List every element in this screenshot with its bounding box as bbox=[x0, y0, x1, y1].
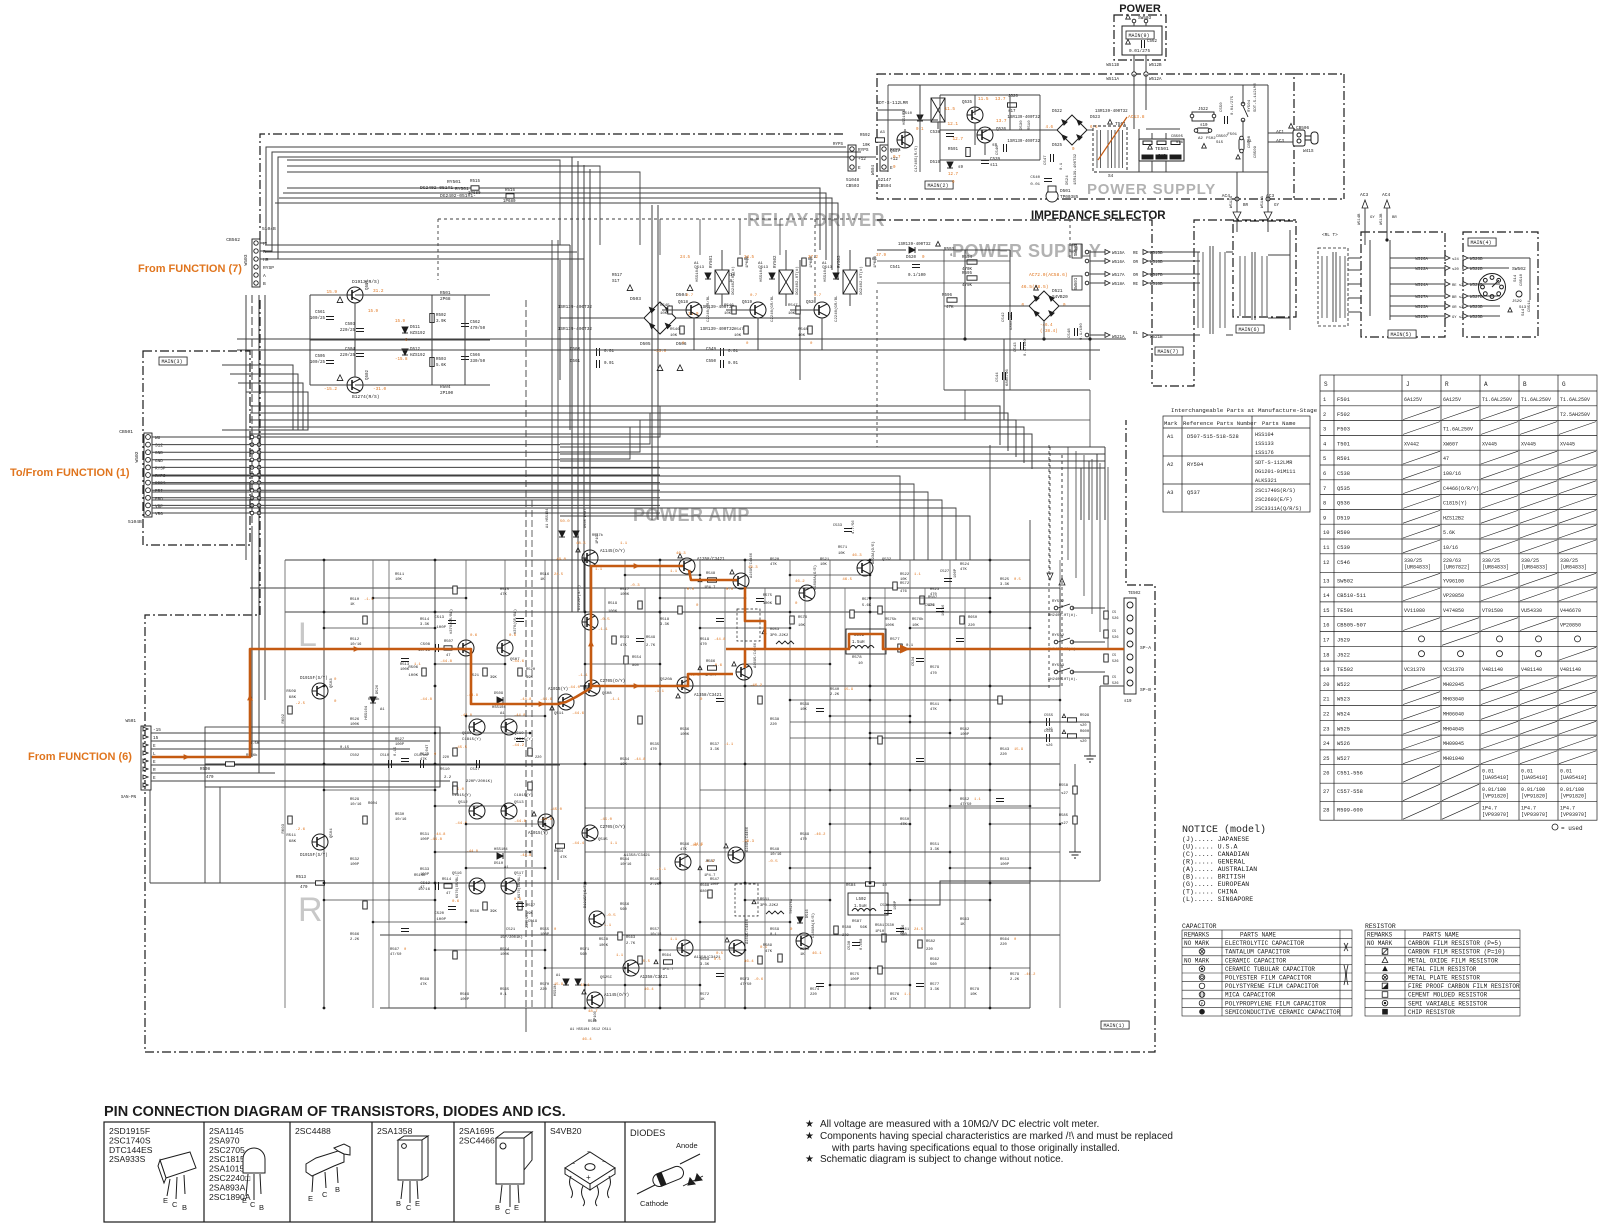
wire rail 722 bbox=[790, 721, 1030, 723]
relay contact RY502 a bbox=[1054, 640, 1058, 644]
connector pin W527B bbox=[1463, 294, 1468, 299]
wire Q536 down bbox=[984, 143, 986, 155]
svg-text:R545: R545 bbox=[650, 878, 660, 882]
svg-text:DH2402-0T(#)-: DH2402-0T(#)- bbox=[1048, 613, 1078, 618]
wire CB501 pin PRPS bbox=[152, 482, 660, 484]
svg-text:47K: 47K bbox=[560, 856, 568, 860]
svg-text:0.01: 0.01 bbox=[604, 362, 615, 366]
svg-text:RY502: RY502 bbox=[774, 255, 778, 268]
wire amp column bbox=[544, 560, 546, 1008]
warning mark bbox=[1108, 119, 1113, 124]
wire CB501 pin RYSP bbox=[152, 466, 660, 468]
svg-text:R537: R537 bbox=[526, 904, 535, 908]
svg-text:R563: R563 bbox=[626, 936, 636, 940]
capacitor C538 bbox=[946, 134, 954, 137]
wire interconnect bbox=[830, 789, 950, 791]
capacitor C504 bbox=[356, 354, 364, 357]
svg-text:MH04045: MH04045 bbox=[1443, 726, 1464, 732]
svg-text:CB503: CB503 bbox=[846, 184, 860, 189]
svg-text:51048: 51048 bbox=[846, 178, 860, 183]
wire W517A bbox=[1090, 273, 1105, 275]
svg-text:Q513: Q513 bbox=[514, 801, 524, 805]
wire rail 935b bbox=[660, 934, 1030, 936]
transistor Q520A bbox=[677, 677, 693, 693]
svg-text:V474850: V474850 bbox=[1443, 608, 1464, 614]
svg-text:1K: 1K bbox=[350, 603, 355, 607]
pass-through bbox=[250, 488, 254, 492]
svg-text:R: R bbox=[1445, 381, 1449, 388]
svg-text:C551-556: C551-556 bbox=[1337, 771, 1363, 777]
svg-text:15.9: 15.9 bbox=[1014, 748, 1024, 752]
MAIN(3) dash-dot box bbox=[143, 351, 250, 545]
svg-text:10K: 10K bbox=[838, 552, 846, 556]
svg-text:470: 470 bbox=[300, 886, 308, 890]
warning mark bbox=[676, 694, 680, 698]
connector pin W525A bbox=[1445, 314, 1450, 319]
svg-text:S: S bbox=[1324, 381, 1328, 388]
wire mid rail lower bbox=[560, 500, 942, 560]
svg-text:100P: 100P bbox=[540, 933, 550, 937]
svg-text:MAIN(2): MAIN(2) bbox=[928, 183, 949, 189]
svg-text:C1815(Y): C1815(Y) bbox=[1443, 501, 1467, 507]
wire amp rail3 bbox=[285, 611, 1060, 613]
wire amp column bbox=[388, 560, 390, 1008]
pass-through bbox=[257, 504, 261, 508]
relay lever bbox=[1058, 668, 1070, 672]
svg-text:R544: R544 bbox=[620, 858, 630, 862]
svg-text:W502: W502 bbox=[134, 451, 140, 462]
svg-text:★: ★ bbox=[805, 1119, 814, 1130]
svg-text:AC72.0(AC58.6): AC72.0(AC58.6) bbox=[1029, 272, 1068, 278]
svg-text:REMARKS: REMARKS bbox=[1367, 932, 1393, 939]
svg-text:#370(GR/BL): #370(GR/BL) bbox=[449, 609, 454, 634]
svg-text:HSS104: HSS104 bbox=[1255, 432, 1274, 438]
wire CB501 pin S12 bbox=[152, 444, 560, 446]
svg-text:D521: D521 bbox=[1052, 289, 1063, 294]
wire AC3 up bbox=[1364, 208, 1366, 232]
svg-text:C520: C520 bbox=[434, 912, 444, 916]
svg-text:0.15: 0.15 bbox=[340, 746, 350, 750]
svg-text:W527: W527 bbox=[1337, 756, 1350, 762]
wire lower rail bbox=[560, 467, 1105, 469]
junction bbox=[989, 899, 992, 902]
svg-text:W516B: W516B bbox=[1150, 261, 1163, 265]
svg-text:0.01: 0.01 bbox=[1521, 769, 1533, 775]
junction bbox=[465, 921, 468, 924]
wire relay drop bbox=[739, 219, 741, 255]
warning mark bbox=[550, 706, 554, 710]
connector pin W516B bbox=[1143, 259, 1148, 264]
svg-text:220: 220 bbox=[1000, 943, 1008, 947]
wire mid rail lower bbox=[560, 492, 928, 560]
svg-text:15.9: 15.9 bbox=[368, 310, 379, 314]
svg-text:MH03040: MH03040 bbox=[1443, 697, 1464, 703]
connector pin W516A bbox=[1105, 259, 1110, 264]
svg-text:R559: R559 bbox=[770, 928, 780, 932]
svg-text:C538: C538 bbox=[848, 940, 852, 950]
svg-text:2SC1740S(R/S): 2SC1740S(R/S) bbox=[1255, 488, 1295, 494]
connector pin W521B bbox=[1143, 333, 1148, 338]
svg-text:46.2: 46.2 bbox=[795, 580, 805, 584]
junction bbox=[869, 699, 872, 702]
wire relay bus bbox=[287, 188, 820, 250]
junction bbox=[869, 574, 872, 577]
junction bbox=[323, 899, 326, 902]
resistor R523 bbox=[612, 636, 616, 644]
rail junction bbox=[434, 559, 437, 562]
wire amp mid rail bbox=[580, 685, 1060, 687]
svg-text:A1 HSS104: A1 HSS104 bbox=[546, 509, 550, 528]
svg-text:R554: R554 bbox=[500, 948, 510, 952]
svg-text:21: 21 bbox=[1323, 697, 1329, 703]
svg-text:R575: R575 bbox=[763, 594, 773, 598]
diode D511 bbox=[402, 327, 408, 333]
svg-text:1P4.7: 1P4.7 bbox=[1521, 806, 1536, 812]
svg-text:R532: R532 bbox=[350, 858, 360, 862]
RL core line bbox=[1332, 252, 1334, 322]
svg-text:A2: A2 bbox=[1198, 137, 1203, 141]
svg-text:B: B bbox=[259, 1203, 264, 1212]
resistor R568b bbox=[708, 890, 712, 898]
capacitor stub bbox=[401, 929, 409, 932]
resistor R573 bbox=[850, 610, 854, 618]
svg-text:C562: C562 bbox=[1147, 40, 1158, 44]
svg-text:1SR139-400T32: 1SR139-400T32 bbox=[1074, 153, 1078, 185]
wire W526A bbox=[1390, 257, 1445, 259]
svg-text:R516: R516 bbox=[540, 573, 550, 577]
svg-text:1.5uH: 1.5uH bbox=[852, 641, 865, 645]
svg-text:R565: R565 bbox=[500, 988, 510, 992]
svg-text:-44.6: -44.6 bbox=[540, 698, 553, 702]
relay SDT-S-112LMR bbox=[931, 98, 945, 122]
svg-text:ELECTROLYTIC CAPACITOR: ELECTROLYTIC CAPACITOR bbox=[1225, 940, 1305, 947]
svg-text:1.1: 1.1 bbox=[616, 954, 624, 958]
svg-text:220: 220 bbox=[535, 756, 541, 760]
svg-text:46.4: 46.4 bbox=[744, 960, 754, 964]
svg-text:1K: 1K bbox=[800, 953, 805, 957]
wire amp column minor bbox=[884, 588, 886, 1008]
svg-text:3.3K: 3.3K bbox=[1000, 583, 1010, 587]
capacitor stub bbox=[401, 659, 409, 662]
wire amp column minor bbox=[604, 588, 606, 1008]
svg-text:47K: 47K bbox=[930, 708, 938, 712]
svg-text:R511: R511 bbox=[395, 573, 405, 577]
wire PS right rail bbox=[1267, 85, 1269, 172]
svg-text:C1815(Y): C1815(Y) bbox=[514, 793, 533, 798]
junction bbox=[659, 984, 662, 987]
svg-text:Q508: Q508 bbox=[602, 692, 612, 696]
svg-text:SW503: SW503 bbox=[1138, 16, 1152, 21]
bridge D522/D523 bbox=[1057, 115, 1087, 145]
legend O = used bbox=[1552, 824, 1558, 830]
svg-text:Reference Parts Number: Reference Parts Number bbox=[1183, 420, 1257, 427]
svg-text:R577: R577 bbox=[930, 983, 939, 987]
junction bbox=[465, 867, 468, 870]
resistor R503 bbox=[430, 358, 434, 367]
svg-text:100P: 100P bbox=[436, 918, 446, 922]
wire R520 col bbox=[1009, 95, 1011, 130]
resistor emitter bbox=[744, 326, 748, 334]
capacitor C562 bbox=[461, 324, 469, 327]
MAIN6 core line bbox=[1251, 252, 1253, 320]
svg-text:[VP93970]: [VP93970] bbox=[1521, 812, 1548, 818]
svg-text:R571: R571 bbox=[580, 948, 590, 952]
wire relay top bbox=[919, 85, 921, 100]
pass-through bbox=[250, 435, 254, 439]
svg-text:0.1: 0.1 bbox=[500, 993, 508, 997]
svg-text:CEMENT MOLDED RESISTOR: CEMENT MOLDED RESISTOR bbox=[1408, 992, 1488, 999]
diode D512 bbox=[402, 349, 408, 355]
resistor R506 bbox=[422, 668, 426, 676]
rail junction bbox=[584, 611, 587, 614]
svg-text:AC4: AC4 bbox=[1222, 193, 1231, 199]
svg-text:B: B bbox=[1523, 381, 1527, 388]
svg-text:220: 220 bbox=[443, 756, 449, 760]
svg-text:R567: R567 bbox=[390, 948, 399, 952]
svg-text:R558: R558 bbox=[1059, 784, 1069, 788]
connector CB504 bbox=[880, 145, 888, 171]
vertical feed bus bbox=[583, 165, 585, 612]
capacitor C538b bbox=[852, 943, 860, 946]
svg-text:R514: R514 bbox=[420, 618, 430, 622]
parts table bbox=[1320, 375, 1597, 820]
svg-text:R534: R534 bbox=[554, 850, 564, 854]
svg-text:10K: 10K bbox=[820, 563, 828, 567]
svg-text:s27: s27 bbox=[1061, 792, 1068, 796]
resistor R557 bbox=[708, 866, 717, 870]
wire W518B bbox=[1148, 282, 1196, 284]
wire relay drop bbox=[779, 219, 781, 255]
svg-text:TE502: TE502 bbox=[1337, 667, 1353, 673]
svg-text:0.1: 0.1 bbox=[770, 933, 778, 937]
junction below bridge bbox=[1042, 337, 1045, 340]
svg-text:100/25: 100/25 bbox=[310, 360, 326, 365]
svg-text:2.2K: 2.2K bbox=[650, 883, 660, 887]
svg-text:6: 6 bbox=[1323, 471, 1326, 477]
svg-text:R546: R546 bbox=[724, 304, 734, 308]
PS border extension top bbox=[1294, 73, 1344, 75]
svg-text:Anode: Anode bbox=[676, 1141, 698, 1150]
wire base bbox=[790, 309, 814, 311]
svg-text:1.5K: 1.5K bbox=[250, 742, 260, 746]
svg-text:R519: R519 bbox=[700, 638, 710, 642]
svg-text:D524: D524 bbox=[1066, 175, 1070, 185]
svg-text:8: 8 bbox=[1323, 501, 1326, 507]
svg-text:5.6K: 5.6K bbox=[862, 604, 872, 608]
resistor R575 bbox=[776, 596, 780, 604]
svg-text:OR: OR bbox=[1133, 274, 1139, 278]
junction bbox=[434, 732, 437, 735]
connector pin W526A bbox=[1445, 256, 1450, 261]
bridge D521 S4VB20 bbox=[1029, 291, 1059, 321]
svg-text:R514: R514 bbox=[442, 878, 452, 882]
svg-text:Q535: Q535 bbox=[962, 101, 973, 105]
rail junction bbox=[744, 559, 747, 562]
transistor Q502 bbox=[347, 377, 363, 393]
svg-text:1P100: 1P100 bbox=[594, 1011, 598, 1022]
svg-text:[UA95410]: [UA95410] bbox=[1560, 775, 1587, 781]
diode D519 bbox=[947, 162, 953, 168]
svg-text:R557: R557 bbox=[706, 860, 715, 864]
wire interconnect bbox=[870, 732, 950, 734]
svg-text:D519: D519 bbox=[930, 161, 941, 165]
wire mid rail relay block bbox=[310, 339, 490, 341]
junction bbox=[829, 789, 832, 792]
svg-text:A1: A1 bbox=[380, 708, 385, 712]
SW501 box bbox=[1072, 244, 1082, 258]
svg-text:-2.6: -2.6 bbox=[295, 828, 305, 832]
wire into MAIN5 bbox=[1364, 232, 1366, 245]
svg-text:5.6K: 5.6K bbox=[436, 364, 447, 368]
AC3 junction bbox=[1266, 197, 1270, 201]
svg-text:680E/96: 680E/96 bbox=[1005, 369, 1010, 386]
svg-text:POLYPROPYLENE FILM CAPACITOR: POLYPROPYLENE FILM CAPACITOR bbox=[1225, 1000, 1326, 1007]
svg-text:-46.3: -46.3 bbox=[742, 840, 755, 844]
warning mark bbox=[678, 554, 682, 558]
svg-text:R545: R545 bbox=[660, 304, 670, 308]
rail junction bbox=[434, 763, 437, 766]
svg-text:R527: R527 bbox=[395, 738, 404, 742]
svg-text:47K: 47K bbox=[900, 823, 908, 827]
svg-text:330/25: 330/25 bbox=[1521, 558, 1539, 564]
pass-through bbox=[250, 450, 254, 454]
RY504 contact2 bbox=[1241, 118, 1245, 122]
AC3 arrow bbox=[1264, 212, 1272, 220]
resistor stub bbox=[758, 956, 762, 964]
transistor Q505 bbox=[458, 640, 474, 656]
junction bbox=[434, 789, 437, 792]
svg-text:0.15: 0.15 bbox=[394, 746, 398, 756]
svg-text:R571: R571 bbox=[838, 546, 848, 550]
svg-text:1K: 1K bbox=[540, 578, 545, 582]
wire R out up bbox=[1099, 686, 1101, 881]
junction bbox=[789, 574, 792, 577]
rail junction bbox=[584, 1007, 587, 1010]
svg-text:R537: R537 bbox=[710, 743, 719, 747]
svg-text:RY503: RY503 bbox=[838, 255, 842, 268]
transistor Q504 bbox=[312, 834, 328, 850]
svg-text:R511: R511 bbox=[286, 834, 296, 838]
resistor R572 bbox=[893, 582, 897, 590]
svg-text:C530: C530 bbox=[885, 924, 895, 928]
svg-text:RY503: RY503 bbox=[1052, 664, 1065, 668]
svg-text:A893A(O/E): A893A(O/E) bbox=[871, 541, 876, 564]
diode D512b bbox=[563, 979, 569, 985]
wire nested bus bbox=[230, 374, 298, 430]
svg-text:VV11080: VV11080 bbox=[1404, 608, 1425, 614]
board label MAIN(6) bbox=[1236, 325, 1264, 333]
svg-text:2.2K: 2.2K bbox=[350, 938, 360, 942]
connector pin W515B bbox=[1143, 250, 1148, 255]
wire mid rail left part bbox=[152, 491, 560, 493]
svg-text:0.6: 0.6 bbox=[470, 634, 478, 638]
svg-text:[UR84833]: [UR84833] bbox=[1404, 564, 1431, 570]
svg-text:2: 2 bbox=[1323, 412, 1326, 418]
wire left drop b bbox=[219, 787, 221, 883]
dashed box R661 bbox=[735, 884, 758, 916]
svg-text:R553: R553 bbox=[1000, 858, 1010, 862]
svg-text:W522B: W522B bbox=[1470, 268, 1483, 272]
svg-text:F503: F503 bbox=[1337, 427, 1350, 433]
svg-text:47/50: 47/50 bbox=[390, 952, 402, 957]
board label MAIN(3) bbox=[159, 357, 187, 365]
wire imp rail a bbox=[877, 260, 1010, 262]
svg-text:0.7: 0.7 bbox=[814, 294, 822, 298]
svg-text:56K: 56K bbox=[860, 926, 868, 930]
svg-text:560: 560 bbox=[930, 963, 938, 967]
resistor stub bbox=[363, 616, 367, 624]
svg-text:10/16: 10/16 bbox=[350, 642, 362, 647]
svg-text:0.1/100: 0.1/100 bbox=[1023, 339, 1028, 356]
warning mark bbox=[687, 285, 693, 291]
svg-text:R503: R503 bbox=[436, 358, 447, 362]
transformer core line b bbox=[1212, 246, 1214, 334]
svg-text:470: 470 bbox=[650, 748, 658, 752]
svg-text:RELAY DRIVER: RELAY DRIVER bbox=[747, 210, 885, 230]
svg-text:R575b: R575b bbox=[885, 617, 897, 622]
svg-text:-44.4: -44.4 bbox=[572, 842, 585, 846]
wire interconnect bbox=[870, 967, 990, 969]
rail junction bbox=[659, 611, 662, 614]
svg-text:10K: 10K bbox=[970, 993, 978, 997]
svg-text:CARBON FILM RESISTOR (P=5): CARBON FILM RESISTOR (P=5) bbox=[1408, 940, 1502, 947]
connector pin W518A bbox=[1105, 281, 1110, 286]
svg-text:POWER SUPPLY: POWER SUPPLY bbox=[1087, 181, 1216, 198]
junction bbox=[434, 627, 437, 630]
svg-text:10K: 10K bbox=[788, 312, 796, 316]
svg-text:MAIN(7): MAIN(7) bbox=[1158, 349, 1179, 355]
junction bbox=[949, 732, 952, 735]
svg-text:10/16: 10/16 bbox=[941, 604, 946, 616]
wire ps col c bbox=[939, 95, 941, 172]
svg-text:10K: 10K bbox=[800, 708, 808, 712]
diode D509 bbox=[497, 697, 503, 703]
pass-through bbox=[250, 458, 254, 462]
svg-text:R504: R504 bbox=[440, 385, 451, 390]
svg-text:REMARKS: REMARKS bbox=[1184, 932, 1210, 939]
svg-text:HSS104: HSS104 bbox=[492, 706, 506, 710]
junction bbox=[434, 851, 437, 854]
impedance selector dash-dot border bbox=[877, 220, 1296, 386]
svg-text:0.7: 0.7 bbox=[750, 294, 758, 298]
svg-text:E: E bbox=[858, 166, 861, 171]
svg-text:0.068: 0.068 bbox=[860, 938, 864, 950]
svg-text:MH01040: MH01040 bbox=[1443, 756, 1464, 762]
svg-text:5.6K: 5.6K bbox=[1443, 530, 1455, 536]
svg-text:R590: R590 bbox=[1337, 530, 1350, 536]
MAIN(5) dash-dot box bbox=[1361, 232, 1445, 337]
svg-text:860: 860 bbox=[632, 664, 640, 668]
wire amp lower mid rail bbox=[150, 882, 1030, 884]
svg-text:MAIN(5): MAIN(5) bbox=[1391, 332, 1412, 338]
svg-text:[UA95410]: [UA95410] bbox=[1482, 775, 1509, 781]
svg-text:D507-515-518-528: D507-515-518-528 bbox=[1187, 434, 1239, 440]
svg-text:R543: R543 bbox=[1000, 748, 1010, 752]
svg-text:OR: OR bbox=[1133, 261, 1139, 265]
rail junction bbox=[869, 763, 872, 766]
svg-text:MH06040: MH06040 bbox=[1443, 712, 1464, 718]
wire right col down bbox=[989, 445, 991, 560]
svg-text:9: 9 bbox=[1323, 515, 1326, 521]
wire mid rail lower bbox=[560, 484, 914, 560]
wire interconnect bbox=[435, 805, 505, 807]
svg-text:-1.1: -1.1 bbox=[364, 598, 374, 602]
vertical bus bbox=[245, 295, 247, 560]
svg-text:CB501: CB501 bbox=[119, 429, 133, 435]
svg-text:CB505: CB505 bbox=[1171, 135, 1184, 139]
svg-text:B: B bbox=[182, 1203, 187, 1212]
svg-text:68K: 68K bbox=[289, 696, 297, 700]
